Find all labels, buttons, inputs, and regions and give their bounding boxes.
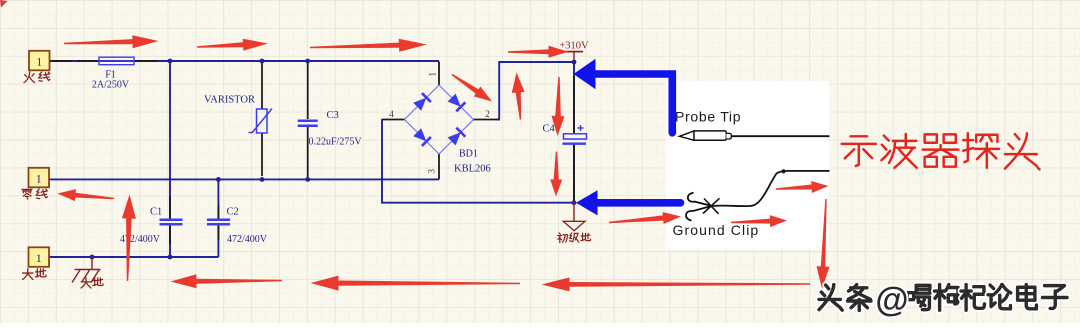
annotation red arrow G1 at ground clip bbox=[609, 212, 681, 224]
wire BD1 output minus to primary ground bbox=[382, 120, 574, 203]
annotation blue arrow to primary ground node bbox=[576, 190, 681, 215]
pin C3 pins bbox=[307, 63, 309, 177]
capacitor C4 electrolytic bbox=[563, 125, 587, 144]
port P1 live bbox=[29, 51, 50, 71]
port P3 earth bbox=[29, 247, 50, 266]
capacitor C2 bbox=[207, 220, 230, 224]
junction neutral/C3 bbox=[305, 177, 310, 182]
capacitor C3 bbox=[298, 121, 318, 126]
annotation red arrow A6 to +310V bbox=[508, 46, 569, 58]
svg-text:C1: C1 bbox=[150, 207, 162, 218]
svg-text:+310V: +310V bbox=[559, 41, 589, 52]
svg-text:BD1: BD1 bbox=[459, 149, 478, 160]
diode D-bottomright of BD1 bbox=[448, 128, 466, 146]
ground clip drawing bbox=[686, 169, 829, 220]
annotation red arrow G3 cable right bbox=[776, 181, 829, 193]
svg-text:3: 3 bbox=[427, 169, 437, 174]
wire earth rail bbox=[49, 256, 219, 258]
diode D-topright of BD1 bbox=[448, 94, 466, 112]
svg-text:KBL206: KBL206 bbox=[454, 164, 491, 175]
svg-text:1: 1 bbox=[36, 54, 42, 68]
svg-text:1: 1 bbox=[36, 251, 42, 265]
junction neutral/RV1 bbox=[260, 177, 265, 182]
caption 示波器探头 (oscilloscope probe) bbox=[842, 133, 1040, 169]
junction live/C3 bbox=[305, 59, 310, 64]
pin C4 pins bbox=[573, 76, 575, 202]
junction live/C1 bbox=[168, 59, 173, 64]
wire C1 branch bbox=[169, 61, 171, 219]
capacitor C1 bbox=[160, 220, 183, 224]
net label 零线 (neutral) bbox=[22, 189, 47, 199]
probe illustration white panel bbox=[666, 81, 829, 250]
annotation red arrow A1 top flow 1 bbox=[64, 35, 159, 48]
net label 初級地 (primary ground) bbox=[558, 233, 591, 243]
svg-text:@: @ bbox=[875, 281, 908, 319]
svg-text:C2: C2 bbox=[227, 207, 239, 218]
watermark 头条 @喝枸杞论电子 bbox=[819, 281, 1067, 319]
annotation red arrow A4 into bridge bbox=[452, 74, 492, 102]
svg-text:472/400V: 472/400V bbox=[120, 234, 161, 245]
junction primary ground node bbox=[572, 200, 577, 205]
power +310V bbox=[559, 41, 589, 61]
net label 火线 (live) bbox=[24, 72, 50, 83]
annotation red arrow G2 ground clip label bbox=[731, 215, 787, 227]
annotation red arrow A10 to neutral port bbox=[58, 189, 115, 201]
annotation red arrow A8 down to ground bbox=[550, 152, 562, 197]
annotation red arrow B3 bottom return 3 bbox=[542, 277, 811, 291]
annotation red corner fragment bbox=[0, 0, 8, 8]
pin C1 pins bbox=[169, 196, 171, 244]
svg-text:0.22uF/275V: 0.22uF/275V bbox=[309, 137, 363, 148]
junction earth/C1 bbox=[168, 255, 173, 260]
svg-text:Ground Clip: Ground Clip bbox=[673, 222, 760, 238]
pin BD1 pin1 stub bbox=[438, 62, 440, 86]
varistor RV1 bbox=[249, 109, 273, 134]
annotation red arrow B1 bottom return 1 bbox=[171, 274, 283, 288]
wire C4 branch bbox=[573, 62, 575, 203]
junction neutral/C2 bbox=[216, 177, 221, 182]
pin P1 to F1 bbox=[49, 60, 158, 62]
annotation red arrow A3 top flow 3 bbox=[310, 39, 427, 52]
annotation red arrow A9 up at C1 bbox=[122, 195, 136, 282]
wire neutral rail N bbox=[49, 178, 440, 180]
pin RV1 pins bbox=[261, 63, 263, 176]
net label 大地 at earth symbol bbox=[81, 278, 103, 288]
pin BD1 pin3 stub bbox=[438, 154, 440, 179]
diode D-bottomleft of BD1 bbox=[413, 128, 431, 146]
junction earth symbol bbox=[90, 255, 95, 260]
annotation red arrow B2 bottom return 2 bbox=[311, 276, 521, 291]
svg-text:2A/250V: 2A/250V bbox=[92, 80, 130, 91]
probe tip drawing bbox=[680, 131, 830, 140]
pin C2 pins bbox=[217, 205, 219, 240]
junction +310V node bbox=[572, 60, 577, 65]
fuse F1 bbox=[99, 57, 134, 64]
wire C2 branch bbox=[217, 179, 219, 219]
pin BD1 pin2 stub bbox=[474, 119, 498, 121]
svg-text:1: 1 bbox=[428, 72, 438, 77]
annotation red arrow A2 top flow 2 bbox=[197, 39, 268, 51]
svg-text:Probe Tip: Probe Tip bbox=[675, 109, 741, 125]
svg-text:C4: C4 bbox=[543, 124, 556, 135]
pin BD1 pin4 stub bbox=[381, 119, 404, 121]
annotation red arrow G4 down to watermark bbox=[817, 199, 830, 289]
diode D-topleft of BD1 bbox=[413, 93, 431, 111]
svg-text:1: 1 bbox=[36, 171, 42, 185]
junction live/RV1 bbox=[260, 59, 265, 64]
earth ground symbol (大地) bbox=[72, 257, 101, 283]
svg-text:2: 2 bbox=[485, 109, 490, 119]
annotation red arrow A5 up from bridge bbox=[512, 73, 525, 120]
port P2 neutral bbox=[29, 168, 50, 188]
svg-text:4: 4 bbox=[389, 109, 394, 119]
annotation blue arrow to +310V node bbox=[574, 59, 673, 133]
net label 大地 (earth) under port bbox=[23, 269, 46, 280]
svg-text:C3: C3 bbox=[327, 110, 339, 121]
ground primary (初級地) bbox=[563, 203, 585, 231]
wire BD1 output plus to +310V node bbox=[497, 62, 574, 120]
annotation red arrow A7 down to C4 bbox=[552, 77, 565, 136]
bridge rectifier BD1 diamond bbox=[405, 85, 474, 154]
svg-text:VARISTOR: VARISTOR bbox=[204, 95, 255, 106]
wire live rail L bbox=[49, 60, 439, 62]
svg-text:472/400V: 472/400V bbox=[227, 234, 268, 245]
